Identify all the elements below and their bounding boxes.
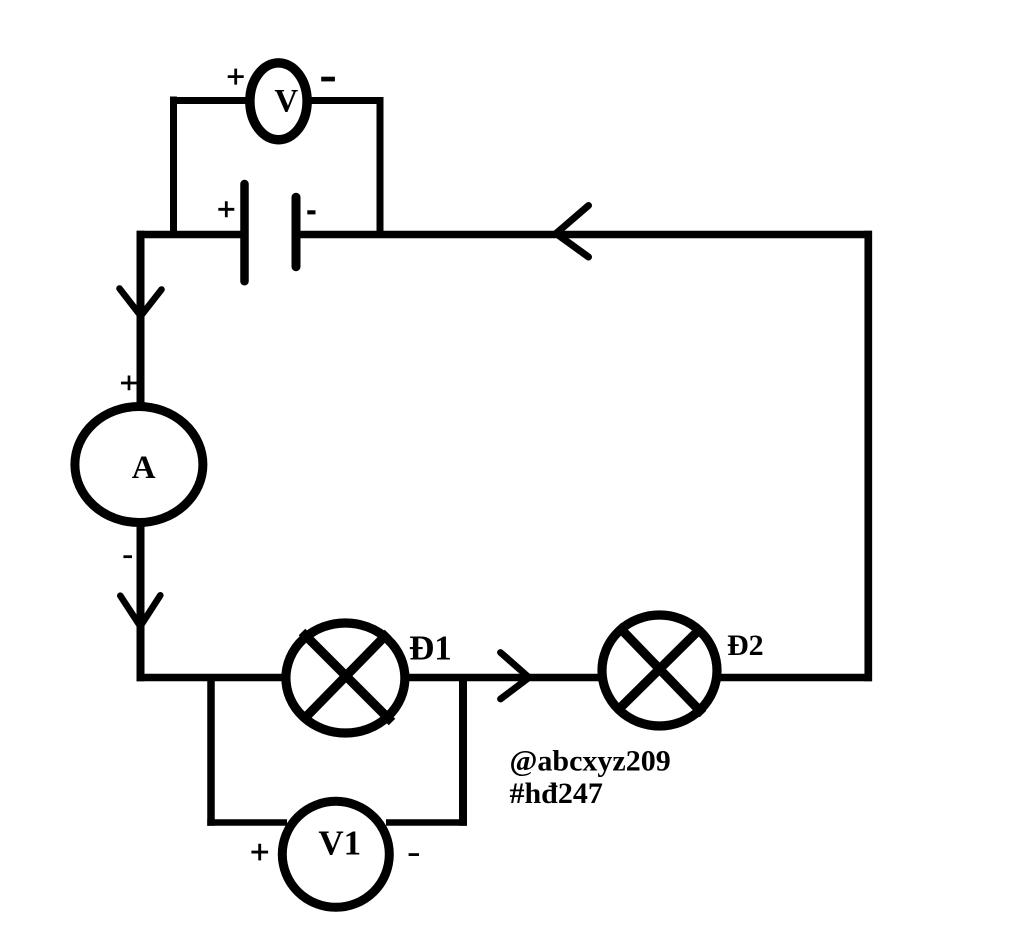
voltmeter V1 circle bbox=[282, 801, 389, 907]
label - (battery) bbox=[307, 210, 315, 214]
battery long plate (+) bbox=[240, 184, 249, 281]
wire: V1 branch right vertical bbox=[459, 674, 467, 826]
label + (voltmeter V) bbox=[228, 69, 244, 85]
wire: V1 branch bottom horizontal (left of V1) bbox=[207, 819, 287, 826]
wire: bottom main horizontal (between D1 and D2) bbox=[403, 674, 604, 682]
wire: voltmeter loop right vertical bbox=[377, 97, 384, 238]
voltmeter V circle bbox=[250, 63, 307, 140]
svg-text:@abcxyz209: @abcxyz209 bbox=[510, 745, 671, 778]
wire: right main vertical bbox=[864, 231, 872, 681]
wire: bottom main horizontal (left of lamp D1) bbox=[137, 674, 289, 682]
label - (voltmeter V) bbox=[321, 77, 335, 82]
arrow: current direction on left wire (upper) bbox=[120, 289, 162, 317]
arrow: current direction on bottom wire bbox=[501, 653, 530, 700]
wire: V1 branch bottom horizontal (right of V1) bbox=[386, 819, 467, 826]
wire: top main horizontal (battery left segment) bbox=[137, 231, 248, 239]
label - (voltmeter V1) bbox=[409, 853, 419, 856]
wire: top main horizontal (battery right segment to right corner) bbox=[294, 231, 872, 239]
arrow: current direction on left wire (lower) bbox=[120, 595, 160, 626]
svg-text:A: A bbox=[132, 450, 156, 486]
lamp D1 circle bbox=[286, 623, 405, 733]
svg-text:V1: V1 bbox=[318, 824, 361, 863]
ammeter A circle bbox=[75, 407, 203, 523]
svg-text:#hđ247: #hđ247 bbox=[510, 777, 603, 810]
battery short plate (-) bbox=[292, 197, 301, 267]
svg-text:Đ1: Đ1 bbox=[409, 629, 452, 668]
wire: voltmeter loop top-right horizontal bbox=[309, 97, 384, 104]
lamp D1 cross bbox=[302, 632, 392, 722]
label + (battery) bbox=[218, 201, 234, 217]
wire: left main vertical bbox=[137, 231, 145, 681]
lamp D2 cross bbox=[616, 626, 703, 714]
wire: voltmeter loop left vertical bbox=[170, 97, 177, 239]
svg-text:V: V bbox=[274, 84, 298, 120]
svg-text:Đ2: Đ2 bbox=[727, 629, 764, 662]
label + (ammeter) bbox=[121, 376, 137, 391]
arrow: current direction on top wire bbox=[556, 206, 589, 258]
label - (ammeter) bbox=[123, 555, 132, 558]
wire: bottom main horizontal (right of D2) bbox=[715, 674, 872, 682]
wire: voltmeter loop top-left horizontal bbox=[170, 97, 248, 104]
label + (voltmeter V1) bbox=[251, 844, 268, 861]
lamp D2 circle bbox=[602, 615, 717, 726]
wire: V1 branch left vertical bbox=[207, 674, 215, 826]
